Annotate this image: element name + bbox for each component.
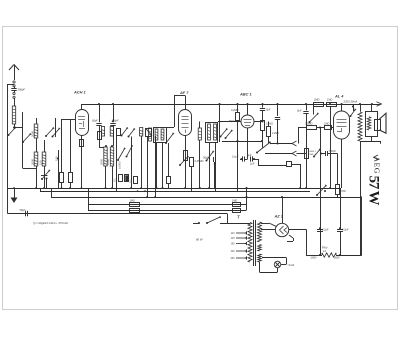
wire TA right	[291, 164, 301, 188]
svg-text:ABC 1: ABC 1	[239, 92, 252, 97]
wire AZ1 cathode out	[287, 230, 307, 256]
svg-text:1µF: 1µF	[250, 163, 255, 166]
wire DC line	[306, 254, 362, 256]
wire x337 drop	[337, 154, 339, 185]
coil osc B	[110, 147, 113, 166]
dial lamp	[274, 261, 281, 268]
switch S1 antenna	[8, 127, 17, 136]
bus arrow end	[377, 102, 382, 106]
wire speaker bottom line	[360, 141, 381, 144]
pot arrow mid	[309, 113, 319, 123]
wire antenna down	[14, 98, 16, 106]
svg-text:60pF: 60pF	[92, 119, 98, 122]
junction j	[324, 190, 326, 192]
wire vertical x147	[147, 136, 149, 197]
resistor R1	[60, 173, 64, 183]
coil IF2b	[214, 124, 217, 140]
wire vertical x139	[141, 136, 143, 188]
svg-text:50µF: 50µF	[203, 157, 209, 160]
capacitor 200pF	[110, 103, 115, 126]
capacitor block C bottom1	[119, 175, 123, 182]
svg-text:REN 1: REN 1	[310, 151, 317, 153]
switch osc b	[126, 145, 133, 157]
wire bus to IF2 right	[218, 103, 220, 142]
wire IF2b down	[215, 142, 217, 191]
wire IF2a down	[209, 142, 211, 188]
wire ACH1 anode to bus	[81, 104, 83, 110]
resistor 1Mohm a1	[130, 203, 140, 207]
resistor 1Mohm b2	[233, 209, 241, 213]
wire cap row	[248, 155, 287, 166]
resistor 0,5Mohm	[307, 126, 317, 130]
svg-text:1MΩ: 1MΩ	[232, 199, 237, 202]
tube ABC1	[241, 115, 254, 128]
trimmer C t1	[41, 175, 48, 177]
svg-text:150: 150	[55, 156, 59, 161]
coil IF2a	[208, 124, 211, 140]
resistor REN1	[305, 149, 309, 159]
output transformer winding	[367, 117, 371, 130]
svg-text:260V: 260V	[333, 257, 340, 260]
svg-text:70Ω: 70Ω	[341, 190, 346, 193]
transformer rect filament	[258, 245, 262, 252]
tube AZ1	[275, 223, 288, 236]
wire ACH1 cathode down	[81, 135, 83, 188]
svg-text:1A: 1A	[323, 250, 326, 253]
svg-text:220: 220	[230, 251, 236, 253]
svg-text:AF 7: AF 7	[179, 90, 189, 95]
resistor R right2	[267, 127, 271, 137]
capacitor 0,1uF	[240, 156, 248, 161]
wire mains left	[8, 213, 228, 215]
svg-text:1MΩ: 1MΩ	[324, 123, 329, 126]
switch tone	[313, 149, 321, 158]
resistor 1Mohm bus	[327, 103, 337, 107]
wire vertical x131	[131, 137, 133, 189]
capacitor block C bottom3	[134, 177, 138, 184]
resistor 1Mohm row	[325, 126, 332, 130]
wire ABC1 anode to bus	[246, 103, 248, 115]
capacitor 5uF	[251, 156, 259, 161]
coil IF1a	[101, 127, 104, 137]
wire x168 down	[168, 143, 170, 176]
svg-text:(!) = Abgleich 1413 u. 473 kHz: (!) = Abgleich 1413 u. 473 kHz	[33, 221, 69, 225]
capacitor block C bottom2	[125, 175, 129, 182]
svg-text:60 W: 60 W	[196, 238, 203, 242]
wire vertical x70	[70, 120, 72, 173]
wire OT bottom	[371, 136, 373, 141]
capacitor block C af	[167, 177, 171, 184]
wire field coil bottom	[360, 141, 362, 255]
wire ABC1 cathode down	[247, 128, 249, 155]
switch S2	[22, 133, 31, 143]
wire vertical x61	[61, 119, 63, 172]
svg-text:T: T	[237, 215, 240, 220]
resistor on 60pF branch	[98, 132, 102, 140]
svg-text:2000: 2000	[100, 159, 104, 165]
wire ACH1 grid left	[62, 119, 76, 121]
resistor 0,2Mohm grid	[236, 103, 240, 191]
svg-text:AZ 1: AZ 1	[274, 213, 283, 218]
svg-text:8,2µF: 8,2µF	[342, 229, 349, 232]
switch osc a	[117, 148, 125, 161]
coil left of BF1	[149, 128, 152, 141]
wire osc bottoms	[106, 166, 113, 188]
svg-text:10000: 10000	[118, 161, 122, 169]
svg-text:0,1MΩ: 0,1MΩ	[266, 124, 273, 126]
wire heater to lamp	[260, 262, 278, 273]
resistor R2	[69, 173, 73, 183]
wire mains corner	[227, 214, 229, 224]
svg-text:AL 4: AL 4	[334, 94, 344, 99]
wire BF1 bottoms	[155, 142, 163, 189]
tube AF7	[179, 110, 192, 136]
wire OT to bus	[371, 103, 373, 112]
trimmer IF2 b	[225, 130, 233, 139]
wire L2 L3 tops	[37, 138, 45, 152]
tube ACH1	[76, 110, 89, 136]
wire vertical x116	[116, 135, 118, 191]
mains switch	[193, 222, 250, 224]
capacitor coupling	[214, 157, 216, 188]
wire x361 down	[361, 197, 363, 255]
trimmer arrow k2	[128, 128, 136, 137]
wire AL4 anode to bus	[340, 103, 342, 111]
wire vertical x58 padding	[57, 150, 59, 188]
capacitor 3uF	[260, 103, 265, 120]
wire IF2 to ABC1 grid	[218, 121, 241, 123]
svg-text:2MΩ: 2MΩ	[313, 99, 319, 102]
coil IF1b	[110, 127, 113, 137]
coil small mid	[198, 128, 201, 140]
wire 60pF down	[99, 126, 104, 148]
switch S4 wave change	[52, 128, 61, 138]
svg-text:1MΩ: 1MΩ	[130, 199, 135, 202]
wire ground bus	[8, 188, 340, 190]
switch S3 wave change	[45, 127, 54, 137]
trimmer IF2 a	[220, 128, 228, 137]
fuse FWd	[322, 253, 336, 257]
svg-text:200pF: 200pF	[110, 119, 119, 122]
wire coil mid up	[199, 122, 201, 129]
coil L2	[34, 152, 38, 166]
wire x277 screen	[275, 103, 280, 145]
earth arrow	[11, 188, 18, 203]
wire x320 drop	[320, 128, 322, 255]
resistor R anode AF7	[190, 158, 194, 167]
wire AF7 cathode down	[185, 136, 187, 189]
wire bus 210	[88, 210, 247, 212]
wire coil mid down	[199, 140, 201, 189]
transformer HV secondary	[258, 222, 262, 242]
coil L1	[36, 118, 38, 124]
speaker	[375, 113, 387, 133]
svg-text:0,5MΩ: 0,5MΩ	[305, 123, 313, 126]
potentiometer volume	[256, 141, 271, 153]
coil BF1b	[161, 129, 164, 140]
wire lamp right	[262, 258, 287, 265]
svg-text:500pF: 500pF	[329, 150, 336, 153]
wire vertical x22	[22, 112, 24, 168]
wire HV to AZ1	[261, 223, 276, 230]
wire bus 204	[88, 187, 248, 210]
resistor 1Mohm b1	[130, 209, 140, 213]
svg-text:0,1: 0,1	[113, 178, 117, 182]
switch below AF7	[179, 156, 189, 166]
wire B+ bus	[82, 104, 381, 106]
pickup arrow 1	[292, 141, 297, 146]
svg-text:5µF: 5µF	[297, 110, 302, 113]
junction trimmer	[45, 177, 47, 179]
taps	[236, 231, 247, 259]
resistor block k1	[117, 129, 121, 136]
field coil	[359, 103, 361, 112]
svg-text:3µF: 3µF	[266, 109, 271, 112]
svg-text:0,1µF: 0,1µF	[232, 156, 239, 159]
svg-text:500pF: 500pF	[18, 88, 26, 92]
wire vertical x55	[55, 118, 57, 137]
resistor Rk AF7	[184, 151, 188, 161]
capacitor 8,2uF b	[337, 188, 343, 255]
bandfilter box BF1	[154, 128, 167, 143]
output transformer frame	[366, 112, 378, 137]
capacitor 50pF mains	[26, 211, 28, 216]
wire pickup lower	[265, 153, 292, 155]
svg-text:0,1: 0,1	[129, 179, 133, 183]
switch BF1	[165, 133, 174, 144]
transformer primary	[248, 223, 252, 263]
switch box k3	[146, 128, 153, 137]
switch coupling	[206, 151, 215, 162]
wire pickup upper	[270, 143, 292, 145]
wire antenna coil to node	[13, 124, 23, 129]
wire x330 drop	[329, 103, 331, 188]
svg-text:-260V: -260V	[310, 257, 317, 260]
svg-text:1MΩ: 1MΩ	[327, 99, 332, 102]
transformer core	[254, 220, 256, 266]
coil L3	[42, 152, 46, 166]
wire AF7 topcap	[166, 96, 186, 128]
resistor 2Mohm bus	[314, 103, 324, 107]
pickup arrow 2	[292, 151, 297, 156]
wire left earth branch	[8, 84, 15, 214]
wire row resistors	[298, 126, 334, 143]
antenna coil	[12, 106, 15, 124]
wire L bottoms to bus	[37, 166, 71, 188]
svg-text:50pF: 50pF	[20, 209, 26, 212]
wire vertical x155	[155, 136, 157, 197]
switch bottom j	[316, 185, 327, 196]
junction tone	[320, 152, 322, 154]
capacitor 500pF antenna	[11, 87, 16, 93]
wire coil block bottom	[23, 168, 37, 170]
capacitor 60pF	[96, 103, 101, 126]
wire AL4 cathode down	[341, 139, 343, 188]
junction dots buses	[13, 187, 362, 198]
transformer heater winding	[258, 254, 262, 262]
connector box TA	[287, 162, 292, 167]
coil osc A	[104, 147, 107, 166]
resistor anode ABC1	[261, 121, 265, 131]
wire x268	[268, 122, 270, 144]
resistor 70ohm	[336, 185, 340, 195]
coil L small	[140, 128, 143, 137]
tube AL4	[334, 111, 350, 139]
coil BF1a	[155, 129, 158, 140]
antenna terminals lower	[13, 92, 15, 98]
svg-text:ACH 1: ACH 1	[73, 90, 86, 95]
svg-text:0,65MΩ: 0,65MΩ	[195, 160, 204, 163]
svg-text:≈0,2A: ≈0,2A	[288, 263, 295, 267]
svg-text:240: 240	[230, 257, 236, 260]
wire 200pF down	[105, 126, 114, 148]
capacitor 8,2uF a	[317, 227, 323, 255]
svg-text:0,2MΩ: 0,2MΩ	[231, 109, 239, 112]
capacitor 5uF screen	[303, 103, 308, 188]
trimmer right AL4	[352, 104, 354, 111]
wire AZ1 top	[281, 196, 283, 224]
resistor 1Mohm a2	[233, 203, 241, 207]
wire bus 197	[51, 188, 361, 198]
capacitor 500pF tone	[321, 151, 338, 156]
bandfilter box IF2	[206, 123, 218, 143]
resistor Rk ACH1	[80, 140, 84, 147]
wire ABC1 plate right	[254, 120, 264, 122]
antenna symbol	[9, 65, 19, 81]
wire x262 down	[262, 130, 264, 148]
terminal arrow small	[374, 155, 379, 160]
wire AVC line	[222, 140, 263, 142]
wire x191 down	[191, 166, 193, 191]
wire 70ohm to bus	[337, 194, 339, 197]
wire bus 191	[40, 188, 310, 192]
trimmer arrow k1	[121, 127, 129, 136]
svg-text:220V,30mA: 220V,30mA	[343, 100, 358, 104]
svg-text:8,2µF: 8,2µF	[322, 229, 329, 232]
antenna terminals	[13, 81, 15, 87]
wire x313 drop	[313, 106, 315, 115]
